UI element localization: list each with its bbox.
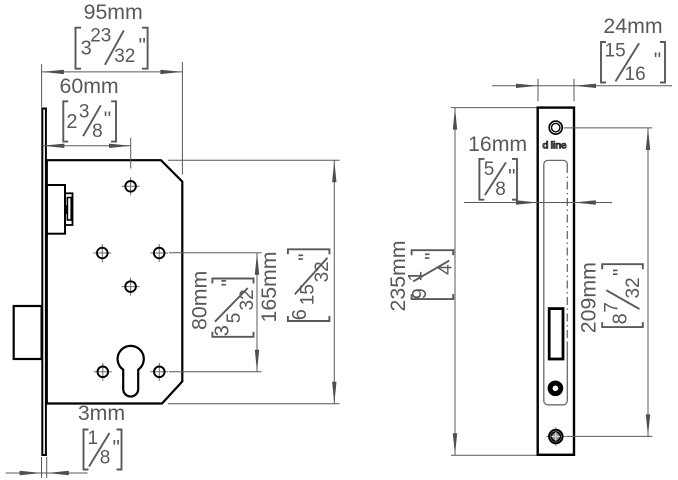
label 80mm (rotated) [187,271,211,330]
235mm arrows [453,108,457,130]
dim 95mm line [42,71,183,73]
bracket [15/16"] [601,40,665,85]
hole bottom-right [150,363,168,381]
arrowheads [20,70,651,476]
bracket [3 23/32"] [76,26,148,69]
svg-text:8: 8 [100,448,111,469]
hole bottom-left [94,363,112,381]
fixing holes with crosshairs [93,177,168,380]
latch bolt outer [65,193,73,225]
svg-text:6: 6 [289,309,311,320]
bottom screw [547,427,566,446]
165mm arrows [332,160,336,182]
svg-text:": " [422,252,445,259]
bracket [8 7/32"] (rotated, right view) [602,264,644,327]
svg-text:": " [113,436,120,459]
svg-text:209mm: 209mm [577,262,601,333]
bracket [1/8"] [84,428,122,470]
hole mid-right [150,244,168,262]
latch spring tick [65,205,67,214]
bracket [3 5/32"] (rotated, left view) [211,279,257,337]
hole center [122,278,140,296]
svg-text:": " [610,269,633,276]
deadbolt (thrown, left of plate) [14,306,42,359]
label 165mm (rotated) [257,251,281,322]
svg-text:": " [139,35,146,58]
svg-text:3: 3 [79,101,90,122]
dim 24mm line [492,85,672,87]
svg-text:7: 7 [602,302,623,313]
hole mid-left [93,244,111,262]
euro profile cylinder cutout [118,346,144,397]
hidden edge dash-dot [566,165,568,342]
60mm arrows [42,144,64,148]
209mm arrows [646,128,650,150]
svg-text:80mm: 80mm [187,271,211,330]
svg-text:16: 16 [625,64,646,85]
svg-text:32: 32 [623,277,644,298]
bracket [6 15/32"] (rotated, left view) [288,249,333,321]
dim 60mm line [42,145,131,147]
svg-text:1: 1 [88,428,99,449]
svg-text:5: 5 [224,313,245,324]
bracket [5/8"] [479,159,517,200]
dim 16mm line [464,202,612,204]
svg-text:23: 23 [90,26,111,47]
svg-text:": " [508,166,515,189]
latch opening [549,309,563,359]
svg-text:4: 4 [436,264,457,275]
dim 209mm line [647,128,649,437]
svg-text:9: 9 [409,288,431,299]
svg-text:32: 32 [237,289,258,310]
svg-text:165mm: 165mm [257,251,281,322]
inner forend plate (rounded) [544,160,568,404]
svg-text:24mm: 24mm [603,14,662,38]
16mm arrows (pointing inward) [516,200,538,204]
bracket [2 3/8"] [63,101,116,142]
svg-text:5: 5 [484,159,495,180]
svg-text:": " [218,279,241,286]
svg-text:32: 32 [114,46,135,67]
dim 3mm line [6,472,88,474]
24mm arrows (pointing inward) [516,84,538,88]
svg-text:3: 3 [211,325,233,336]
3mm arrows (pointing inward) [20,471,42,475]
svg-text:": " [295,253,318,260]
label 209mm (rotated) [577,262,601,333]
svg-text:95mm: 95mm [84,0,143,24]
latch bolt inner [67,198,71,221]
80mm arrows [255,253,259,275]
faceplate front outline [538,108,574,455]
svg-text:": " [104,108,111,131]
dim 165mm line [333,160,335,404]
svg-text:8: 8 [610,313,632,324]
latch bolt block [47,185,65,234]
faceplate (side view, thin vertical plate) [42,109,46,456]
svg-text:8: 8 [92,121,103,142]
bracket [9 1/4"] (rotated, right view) [406,250,457,299]
top screw [549,121,562,134]
svg-text:15: 15 [605,40,626,61]
dim 235mm line [454,108,456,456]
svg-text:3mm: 3mm [78,401,125,425]
svg-text:2: 2 [66,111,77,133]
hole top [122,177,140,195]
dim 80mm line [256,253,258,372]
deadbolt hole [550,383,561,394]
95mm arrows [42,70,64,74]
svg-text:d line: d line [542,140,567,151]
svg-text:8: 8 [495,179,506,200]
svg-text:16mm: 16mm [468,132,527,156]
label 235mm (rotated) [386,240,410,311]
svg-text:": " [654,49,661,72]
svg-text:60mm: 60mm [60,74,119,98]
lock case body with chamfered right corners [47,160,183,403]
